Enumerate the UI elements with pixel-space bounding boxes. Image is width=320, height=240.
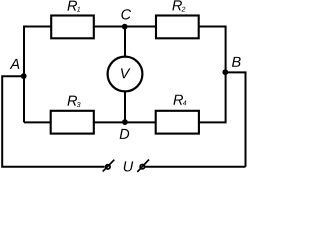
label R3 xyxy=(67,96,80,107)
wire B to right outer rail down to bottom xyxy=(225,72,245,166)
terminal right slash xyxy=(137,160,149,172)
terminal right (open terminal with slash) xyxy=(140,165,144,169)
wire C to R2 xyxy=(125,26,156,28)
wire C down to voltmeter xyxy=(124,27,126,58)
wire right terminal to right rail xyxy=(145,166,246,168)
resistor R3 xyxy=(51,111,94,134)
wire R3 to node A xyxy=(24,121,51,123)
label R1 xyxy=(67,1,80,12)
voltmeter U1 (V) xyxy=(108,57,143,92)
label C xyxy=(121,9,131,19)
label D xyxy=(120,129,130,139)
resistor R2 xyxy=(156,16,199,39)
wire R4 to D xyxy=(125,121,156,123)
label R2 xyxy=(172,0,185,11)
label U xyxy=(124,161,133,171)
terminal left (open terminal with slash) xyxy=(106,165,110,169)
wire R1 to C xyxy=(94,26,125,28)
label A xyxy=(10,59,20,69)
wire R2 to node B xyxy=(199,27,226,73)
resistor R1 xyxy=(51,16,94,39)
node D xyxy=(122,119,128,125)
node C xyxy=(122,24,128,30)
wire voltmeter down to D xyxy=(124,91,126,122)
node B xyxy=(222,69,228,75)
wire B down to R4 right pin xyxy=(199,72,226,122)
wire D to R3 xyxy=(94,121,125,123)
label R4 xyxy=(173,95,186,106)
node A xyxy=(21,73,27,79)
resistor R4 xyxy=(156,111,199,134)
wire A riser to R1 (node A up, then right to R1 left pin) xyxy=(24,27,51,123)
label B xyxy=(232,57,241,67)
wire A to left outer rail down to bottom xyxy=(2,76,104,167)
terminal left slash xyxy=(103,160,115,172)
label V xyxy=(121,68,131,78)
